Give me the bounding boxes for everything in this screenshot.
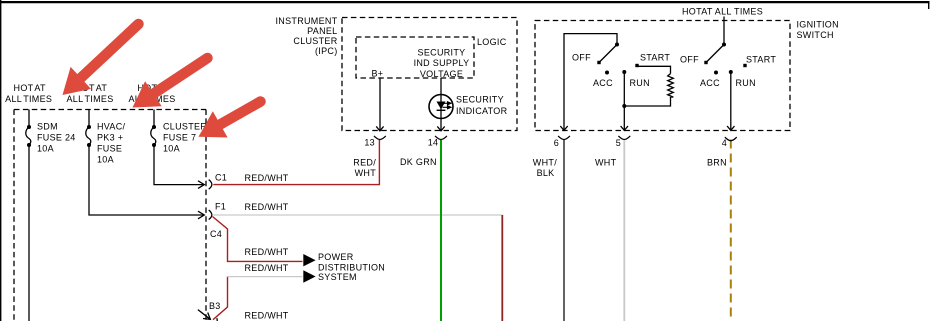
svg-text:13: 13 — [364, 138, 375, 148]
svg-text:INSTRUMENT: INSTRUMENT — [276, 16, 338, 26]
svg-text:OFF: OFF — [572, 53, 591, 63]
svg-text:IND SUPPLY: IND SUPPLY — [414, 58, 470, 68]
svg-text:FUSE 24: FUSE 24 — [37, 133, 76, 143]
svg-text:CLUSTER: CLUSTER — [293, 36, 337, 46]
svg-text:ACC: ACC — [700, 78, 720, 88]
svg-text:RED/WHT: RED/WHT — [245, 202, 289, 212]
svg-text:WHT: WHT — [595, 157, 617, 167]
svg-text:FUSE: FUSE — [97, 144, 122, 154]
svg-text:SWITCH: SWITCH — [797, 30, 834, 40]
svg-text:DISTRIBUTION: DISTRIBUTION — [318, 263, 385, 273]
svg-text:SDM: SDM — [37, 122, 58, 132]
svg-text:START: START — [746, 54, 776, 64]
svg-text:CLUSTER: CLUSTER — [163, 122, 207, 132]
svg-text:SECURITY: SECURITY — [456, 95, 504, 105]
svg-text:START: START — [640, 53, 670, 63]
svg-text:ALL TIMES: ALL TIMES — [5, 94, 52, 104]
svg-text:RED/WHT: RED/WHT — [245, 311, 289, 321]
svg-text:HOT AT: HOT AT — [14, 83, 46, 93]
svg-text:B3: B3 — [209, 301, 221, 311]
svg-text:PK3 +: PK3 + — [97, 133, 123, 143]
svg-text:LOGIC: LOGIC — [477, 37, 507, 47]
svg-text:DK GRN: DK GRN — [400, 157, 437, 167]
svg-text:RED/WHT: RED/WHT — [245, 173, 289, 183]
svg-text:B+: B+ — [372, 68, 384, 78]
svg-text:RUN: RUN — [630, 78, 650, 88]
svg-text:HOTAT ALL TIMES: HOTAT ALL TIMES — [682, 7, 763, 17]
svg-text:WHT: WHT — [355, 168, 377, 178]
svg-text:ALL TIMES: ALL TIMES — [66, 94, 113, 104]
svg-text:6: 6 — [554, 138, 559, 148]
svg-text:ACC: ACC — [593, 78, 613, 88]
svg-text:RUN: RUN — [736, 78, 756, 88]
svg-text:HVAC/: HVAC/ — [97, 122, 126, 132]
svg-text:F1: F1 — [215, 202, 226, 212]
svg-text:10A: 10A — [163, 144, 180, 154]
svg-text:RED/WHT: RED/WHT — [245, 247, 289, 257]
svg-text:14: 14 — [428, 138, 439, 148]
svg-text:OFF: OFF — [680, 54, 699, 64]
svg-text:BRN: BRN — [707, 158, 727, 168]
svg-text:RED/: RED/ — [353, 157, 376, 167]
svg-text:C1: C1 — [215, 173, 227, 183]
svg-text:SECURITY: SECURITY — [418, 47, 466, 57]
svg-text:SYSTEM: SYSTEM — [318, 272, 357, 282]
svg-text:INDICATOR: INDICATOR — [456, 106, 508, 116]
svg-text:WHT/: WHT/ — [533, 157, 557, 167]
svg-text:10A: 10A — [37, 144, 54, 154]
svg-text:VOLTAGE: VOLTAGE — [420, 69, 463, 79]
svg-text:POWER: POWER — [318, 252, 354, 262]
svg-text:10A: 10A — [97, 155, 114, 165]
svg-text:(IPC): (IPC) — [315, 46, 338, 56]
svg-text:RED/WHT: RED/WHT — [245, 263, 289, 273]
svg-text:5: 5 — [616, 138, 621, 148]
svg-text:FUSE 7: FUSE 7 — [163, 133, 196, 143]
svg-text:IGNITION: IGNITION — [797, 19, 839, 29]
svg-text:4: 4 — [722, 138, 727, 148]
svg-text:BLK: BLK — [537, 168, 555, 178]
svg-text:PANEL: PANEL — [307, 26, 337, 36]
svg-text:C4: C4 — [210, 229, 222, 239]
